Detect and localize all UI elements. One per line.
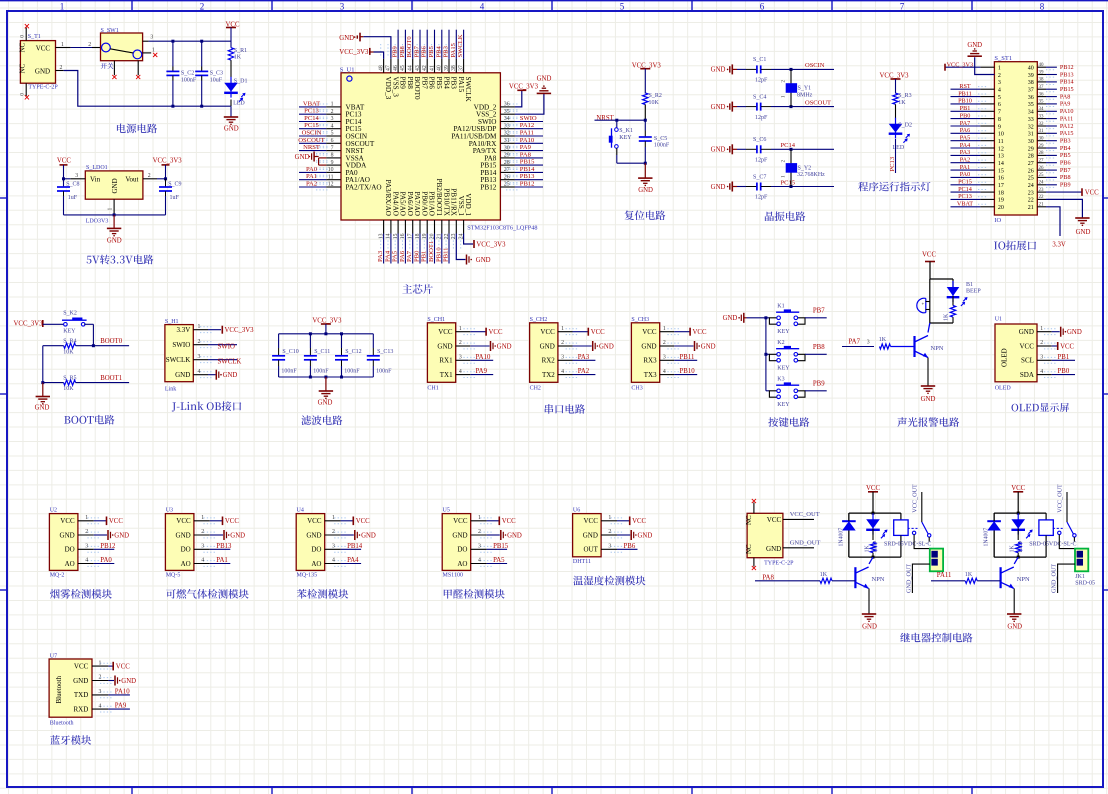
svg-text:PA7: PA7: [960, 120, 970, 127]
svg-text:PA2: PA2: [960, 157, 970, 164]
svg-text:24: 24: [1039, 181, 1045, 186]
svg-text:PA2/TX/AO: PA2/TX/AO: [346, 184, 382, 192]
svg-text:4: 4: [998, 88, 1001, 94]
svg-text:+: +: [922, 303, 925, 308]
svg-text:S_D1: S_D1: [234, 78, 248, 84]
svg-text:VCC: VCC: [109, 518, 123, 525]
svg-text:GND: GND: [35, 68, 50, 76]
svg-text:PB4: PB4: [1060, 145, 1071, 152]
svg-text:3: 3: [998, 80, 1001, 86]
svg-text:28: 28: [1039, 151, 1045, 156]
svg-text:4: 4: [99, 703, 102, 709]
svg-text:KEY: KEY: [63, 329, 76, 335]
svg-text:JK1: JK1: [1075, 574, 1085, 580]
svg-text:26: 26: [504, 174, 510, 180]
svg-text:11: 11: [998, 139, 1004, 145]
svg-text:PB5: PB5: [428, 45, 435, 57]
svg-text:VCC_3V3: VCC_3V3: [339, 49, 369, 56]
svg-text:PB0: PB0: [414, 250, 421, 262]
svg-text:PB1: PB1: [960, 105, 971, 112]
svg-text:38: 38: [451, 65, 457, 71]
svg-text:VCC: VCC: [453, 517, 468, 525]
svg-text:12pF: 12pF: [755, 78, 768, 84]
svg-text:4: 4: [561, 369, 564, 375]
svg-text:PC13: PC13: [304, 108, 319, 115]
svg-text:30: 30: [1039, 137, 1045, 142]
svg-text:TYPE-C-2P: TYPE-C-2P: [28, 85, 58, 91]
svg-text:29: 29: [1028, 146, 1034, 152]
svg-text:GND: GND: [35, 405, 50, 412]
svg-text:PB15: PB15: [493, 543, 509, 550]
svg-text:PA12: PA12: [1060, 123, 1074, 130]
svg-text:1: 1: [998, 66, 1001, 72]
svg-text:OSCIN: OSCIN: [302, 130, 322, 137]
svg-text:PA0: PA0: [306, 166, 318, 173]
svg-text:10K: 10K: [63, 350, 74, 356]
svg-text:GND: GND: [306, 531, 321, 539]
svg-text:PB9: PB9: [392, 45, 399, 57]
svg-text:38: 38: [1028, 80, 1034, 86]
svg-text:PB9: PB9: [1060, 182, 1071, 189]
svg-text:VBAT: VBAT: [957, 201, 973, 208]
svg-text:GND_OUT: GND_OUT: [1051, 564, 1058, 593]
svg-text:PB7: PB7: [421, 77, 429, 90]
svg-text:GND: GND: [452, 531, 467, 539]
svg-text:8: 8: [1040, 2, 1045, 12]
svg-text:22: 22: [1028, 198, 1034, 204]
svg-text:S_C2: S_C2: [181, 71, 194, 77]
svg-text:OUT: OUT: [584, 546, 599, 554]
svg-text:13: 13: [998, 154, 1004, 160]
svg-text:PA8: PA8: [1060, 93, 1070, 100]
svg-text:46: 46: [393, 65, 399, 71]
svg-text:S_C8: S_C8: [66, 181, 79, 187]
svg-text:2: 2: [998, 73, 1001, 79]
svg-text:PA3: PA3: [960, 149, 970, 156]
svg-text:1: 1: [332, 515, 335, 521]
svg-text:100nF: 100nF: [181, 77, 197, 83]
svg-text:1: 1: [99, 660, 102, 666]
svg-text:S_Y1: S_Y1: [798, 86, 812, 92]
svg-text:PB14: PB14: [1060, 79, 1074, 86]
svg-text:PC14: PC14: [958, 186, 972, 193]
svg-text:LED: LED: [233, 100, 245, 106]
svg-text:GND: GND: [711, 67, 726, 74]
svg-text:PC13: PC13: [889, 156, 896, 171]
svg-text:PB5: PB5: [1060, 152, 1071, 159]
svg-text:SWIO: SWIO: [218, 344, 235, 351]
svg-text:4: 4: [85, 558, 88, 564]
svg-text:1K: 1K: [898, 100, 906, 106]
svg-text:KEY: KEY: [777, 329, 790, 335]
svg-text:VSS_1: VSS_1: [457, 196, 465, 217]
svg-text:GND: GND: [711, 104, 726, 111]
svg-text:VCC: VCC: [116, 664, 130, 671]
svg-text:AO: AO: [65, 560, 75, 568]
svg-text:NPN: NPN: [931, 345, 944, 352]
svg-text:PB12: PB12: [1060, 64, 1074, 71]
svg-text:TX1: TX1: [440, 371, 453, 379]
svg-text:GND: GND: [967, 42, 982, 49]
svg-text:35: 35: [1028, 102, 1034, 108]
svg-text:B1: B1: [966, 282, 973, 288]
svg-text:3: 3: [340, 2, 345, 12]
svg-text:3: 3: [150, 35, 153, 41]
svg-text:1: 1: [331, 102, 334, 108]
svg-text:1: 1: [1040, 326, 1043, 332]
svg-text:CH3: CH3: [631, 385, 642, 391]
svg-text:PA2: PA2: [306, 181, 317, 188]
svg-text:U4: U4: [297, 508, 304, 514]
svg-text:38: 38: [1039, 78, 1045, 83]
svg-text:SDA: SDA: [1020, 371, 1034, 379]
svg-text:MQ-5: MQ-5: [166, 573, 181, 579]
svg-text:10: 10: [328, 167, 334, 173]
svg-text:12pF: 12pF: [755, 158, 768, 164]
svg-text:U7: U7: [50, 653, 57, 659]
svg-text:0: 0: [20, 93, 26, 96]
svg-text:1K: 1K: [864, 545, 870, 553]
svg-text:1: 1: [459, 326, 462, 332]
svg-text:RX3: RX3: [643, 357, 657, 365]
svg-text:3: 3: [85, 544, 88, 550]
svg-text:S_C6: S_C6: [753, 137, 766, 143]
svg-text:2: 2: [148, 173, 151, 179]
svg-text:OLED: OLED: [1001, 348, 1009, 367]
svg-text:BOOT0: BOOT0: [406, 36, 413, 58]
svg-text:RXD: RXD: [74, 705, 89, 713]
svg-text:27: 27: [1039, 159, 1045, 164]
svg-text:GND: GND: [73, 677, 88, 685]
svg-text:OSCOUT: OSCOUT: [805, 99, 831, 106]
svg-text:GND: GND: [318, 400, 333, 407]
svg-text:100nF: 100nF: [376, 368, 392, 374]
svg-text:PA15: PA15: [457, 77, 465, 93]
svg-text:DO: DO: [181, 546, 191, 554]
svg-text:U1: U1: [995, 317, 1002, 323]
svg-text:U3: U3: [166, 508, 173, 514]
svg-text:27: 27: [504, 167, 510, 173]
svg-text:3: 3: [1040, 355, 1043, 361]
svg-text:PB7: PB7: [1060, 167, 1071, 174]
svg-text:GND: GND: [723, 315, 738, 322]
svg-text:3: 3: [608, 544, 611, 550]
svg-text:3: 3: [663, 355, 666, 361]
svg-text:34: 34: [504, 116, 510, 122]
svg-text:48: 48: [378, 65, 384, 71]
svg-text:Vin: Vin: [90, 175, 101, 183]
svg-text:PA15: PA15: [450, 42, 457, 57]
svg-text:S_LDO1: S_LDO1: [86, 165, 108, 171]
svg-text:PA9: PA9: [520, 144, 532, 151]
svg-text:44: 44: [408, 65, 414, 71]
svg-text:VCC: VCC: [591, 329, 605, 336]
svg-text:S_C1: S_C1: [753, 57, 766, 63]
svg-text:GND: GND: [121, 678, 136, 685]
svg-text:BOOT1: BOOT1: [100, 375, 122, 382]
svg-text:S_C13: S_C13: [377, 349, 393, 355]
svg-text:3: 3: [331, 116, 334, 122]
svg-text:PB13: PB13: [1060, 71, 1074, 78]
svg-text:2: 2: [459, 340, 462, 346]
svg-text:8: 8: [998, 117, 1001, 123]
svg-text:1: 1: [561, 326, 564, 332]
svg-text:SWCLK: SWCLK: [218, 359, 242, 366]
svg-text:VCC: VCC: [502, 518, 516, 525]
svg-text:100nF: 100nF: [344, 368, 360, 374]
svg-text:9: 9: [998, 124, 1001, 130]
svg-text:PB13: PB13: [520, 173, 535, 180]
svg-text:PB3: PB3: [443, 45, 450, 57]
svg-text:1: 1: [61, 42, 64, 48]
svg-text:6: 6: [760, 2, 765, 12]
svg-text:K3: K3: [777, 377, 784, 383]
svg-text:36: 36: [1028, 95, 1034, 101]
svg-text:S_C11: S_C11: [314, 349, 330, 355]
svg-text:PA6: PA6: [399, 250, 406, 262]
svg-text:SWIO: SWIO: [520, 115, 537, 122]
svg-text:PA5/AO: PA5/AO: [399, 192, 407, 217]
svg-text:23: 23: [1028, 190, 1034, 196]
svg-text:AO: AO: [311, 560, 321, 568]
svg-text:PA6/AO: PA6/AO: [406, 192, 414, 217]
svg-text:VCC_OUT: VCC_OUT: [912, 484, 919, 513]
svg-text:PB12: PB12: [520, 181, 535, 188]
svg-text:4: 4: [1040, 369, 1043, 375]
svg-text:GND: GND: [107, 237, 122, 244]
svg-text:PA3: PA3: [578, 354, 590, 361]
svg-text:VCC: VCC: [74, 662, 89, 670]
svg-text:DHT11: DHT11: [573, 559, 591, 565]
svg-text:32: 32: [1039, 122, 1045, 127]
svg-text:37: 37: [1039, 85, 1045, 90]
svg-text:TYPE-C-2P: TYPE-C-2P: [764, 560, 794, 566]
svg-text:PA1: PA1: [306, 173, 317, 180]
svg-text:Vout: Vout: [125, 175, 138, 183]
svg-text:PB0: PB0: [960, 112, 971, 119]
svg-text:11: 11: [328, 174, 334, 180]
svg-text:2: 2: [198, 339, 201, 345]
svg-text:VCC: VCC: [489, 329, 503, 336]
svg-text:K2: K2: [777, 340, 784, 346]
svg-text:39: 39: [1028, 73, 1034, 79]
svg-text:VSS_3: VSS_3: [391, 77, 399, 98]
svg-text:PA5: PA5: [493, 557, 505, 564]
svg-text:PB4: PB4: [435, 45, 442, 57]
svg-text:PA6: PA6: [960, 127, 970, 134]
svg-text:SRD-05VDC-SL-C: SRD-05VDC-SL-C: [884, 542, 931, 548]
svg-text:PB12: PB12: [100, 543, 116, 550]
svg-text:LDO3V3: LDO3V3: [86, 218, 109, 224]
svg-text:PA3/RX/AO: PA3/RX/AO: [384, 180, 392, 216]
svg-text:10uF: 10uF: [210, 77, 223, 83]
svg-text:25: 25: [504, 182, 510, 188]
svg-text:MQ-2: MQ-2: [50, 573, 65, 579]
svg-text:PA11: PA11: [937, 572, 952, 579]
svg-text:VCC: VCC: [225, 518, 239, 525]
svg-text:VCC: VCC: [767, 516, 782, 524]
svg-text:GND: GND: [507, 532, 522, 539]
svg-text:10K: 10K: [649, 100, 660, 106]
svg-text:Bluetooth: Bluetooth: [50, 720, 74, 726]
svg-text:GND: GND: [230, 532, 245, 539]
svg-text:S_C5: S_C5: [654, 136, 667, 142]
svg-text:GND: GND: [599, 343, 614, 350]
svg-text:S_R1: S_R1: [234, 48, 247, 54]
svg-text:S_C10: S_C10: [282, 349, 298, 355]
svg-text:VCC: VCC: [1060, 343, 1074, 350]
svg-text:PC13: PC13: [958, 193, 972, 200]
svg-text:GND: GND: [114, 532, 129, 539]
svg-text:S_K1: S_K1: [619, 128, 633, 134]
svg-text:VBAT: VBAT: [303, 100, 320, 107]
svg-text:33: 33: [1028, 117, 1034, 123]
svg-text:NC: NC: [745, 515, 753, 525]
svg-text:3: 3: [75, 173, 78, 179]
svg-text:VCC: VCC: [632, 518, 646, 525]
svg-text:6: 6: [331, 138, 334, 144]
svg-text:PB15: PB15: [1060, 86, 1074, 93]
svg-text:VCC: VCC: [693, 329, 707, 336]
svg-text:PB8: PB8: [399, 45, 406, 57]
svg-text:3: 3: [478, 544, 481, 550]
svg-text:GND: GND: [862, 623, 877, 630]
svg-text:S_K2: S_K2: [63, 310, 77, 316]
svg-text:PB6: PB6: [428, 77, 436, 90]
svg-text:37: 37: [458, 65, 464, 71]
svg-text:PB2/BOOT1: PB2/BOOT1: [435, 178, 443, 216]
svg-text:GND: GND: [766, 545, 781, 553]
svg-text:PA9: PA9: [476, 368, 488, 375]
svg-text:2: 2: [99, 675, 102, 681]
svg-text:40: 40: [1028, 66, 1034, 72]
svg-text:35: 35: [1039, 100, 1045, 105]
svg-text:SWIO: SWIO: [172, 341, 190, 349]
svg-text:PB6: PB6: [421, 45, 428, 57]
svg-text:VCC_3V3: VCC_3V3: [476, 242, 506, 249]
svg-text:1: 1: [201, 515, 204, 521]
svg-text:MQ-135: MQ-135: [297, 573, 318, 579]
svg-text:GND: GND: [497, 343, 512, 350]
svg-text:GND: GND: [701, 343, 716, 350]
svg-text:PB0: PB0: [1058, 368, 1070, 375]
svg-text:SWCLK: SWCLK: [457, 34, 464, 57]
svg-text:GND: GND: [339, 35, 354, 42]
svg-text:34: 34: [1028, 110, 1034, 116]
svg-text:PA4: PA4: [960, 142, 970, 149]
svg-text:PB9: PB9: [399, 77, 407, 90]
svg-text:VCC: VCC: [438, 328, 453, 336]
svg-text:34: 34: [1039, 107, 1045, 112]
svg-text:PA10: PA10: [1060, 108, 1074, 115]
svg-text:32.768KHz: 32.768KHz: [797, 172, 825, 178]
svg-text:GND: GND: [361, 532, 376, 539]
svg-text:GND: GND: [1076, 229, 1091, 236]
svg-text:1: 1: [60, 2, 65, 12]
svg-text:S_H1: S_H1: [165, 319, 179, 325]
svg-text:47: 47: [386, 65, 392, 71]
svg-text:S_SW1: S_SW1: [101, 28, 119, 34]
svg-text:PA11: PA11: [1060, 115, 1073, 122]
svg-text:S_Y2: S_Y2: [798, 165, 812, 171]
svg-text:14: 14: [998, 161, 1004, 167]
svg-text:25: 25: [1039, 173, 1045, 178]
svg-text:3.3V: 3.3V: [176, 326, 190, 334]
svg-text:GND: GND: [638, 532, 653, 539]
svg-text:33: 33: [1039, 114, 1045, 119]
svg-text:PC15: PC15: [958, 179, 972, 186]
svg-text:S_T1: S_T1: [28, 34, 41, 40]
svg-text:PA11: PA11: [520, 130, 534, 137]
svg-text:GND: GND: [476, 257, 491, 264]
svg-text:3: 3: [201, 544, 204, 550]
svg-text:PB7: PB7: [813, 307, 825, 314]
svg-text:PB10: PB10: [958, 98, 972, 105]
svg-text:21: 21: [1039, 203, 1045, 208]
svg-text:4: 4: [459, 369, 462, 375]
svg-text:16: 16: [998, 176, 1004, 182]
svg-text:PA12: PA12: [520, 122, 534, 129]
svg-text:PA10: PA10: [115, 688, 130, 695]
svg-text:VCC: VCC: [57, 157, 71, 164]
svg-text:4: 4: [663, 369, 666, 375]
svg-text:SRD-05VDC-SL-C: SRD-05VDC-SL-C: [1029, 542, 1076, 548]
svg-text:12pF: 12pF: [755, 115, 768, 121]
svg-text:GND: GND: [295, 154, 310, 161]
svg-text:S_C9: S_C9: [168, 181, 181, 187]
svg-text:35: 35: [504, 109, 510, 115]
svg-text:S_C3: S_C3: [210, 71, 223, 77]
svg-text:U5: U5: [443, 508, 450, 514]
svg-text:TXD: TXD: [74, 691, 88, 699]
svg-text:GND: GND: [437, 342, 452, 350]
svg-text:42: 42: [422, 65, 428, 71]
svg-text:PB10/TX: PB10/TX: [442, 188, 450, 216]
svg-text:1K: 1K: [1010, 545, 1016, 553]
svg-text:GND_OUT: GND_OUT: [905, 564, 912, 593]
svg-text:3: 3: [332, 544, 335, 550]
svg-text:DO: DO: [65, 546, 75, 554]
svg-text:S_R5: S_R5: [63, 375, 76, 381]
svg-text:PA7: PA7: [406, 250, 413, 262]
svg-text:RX2: RX2: [542, 357, 556, 365]
svg-text:S_CH3: S_CH3: [631, 317, 649, 323]
svg-text:5: 5: [620, 2, 625, 12]
svg-text:PC15: PC15: [304, 122, 319, 129]
svg-text:GND: GND: [60, 531, 75, 539]
svg-text:S_R4: S_R4: [63, 339, 76, 345]
svg-text:1: 1: [85, 515, 88, 521]
svg-text:S_C12: S_C12: [345, 349, 361, 355]
svg-text:DO: DO: [457, 546, 467, 554]
svg-text:PA4/AO: PA4/AO: [391, 192, 399, 217]
svg-text:CH1: CH1: [427, 385, 438, 391]
svg-text:PA1: PA1: [960, 164, 970, 171]
svg-text:VCC: VCC: [176, 517, 191, 525]
svg-text:2: 2: [201, 529, 204, 535]
svg-text:2: 2: [663, 340, 666, 346]
svg-text:MS1100: MS1100: [443, 573, 463, 579]
svg-text:29: 29: [504, 153, 510, 159]
svg-text:GND: GND: [537, 75, 552, 82]
svg-text:18: 18: [998, 190, 1004, 196]
svg-text:PA15: PA15: [1060, 130, 1074, 137]
svg-text:TX2: TX2: [542, 371, 555, 379]
svg-text:2: 2: [1040, 340, 1043, 346]
svg-text:40: 40: [1039, 63, 1045, 68]
svg-text:30: 30: [1028, 139, 1034, 145]
svg-text:PB11: PB11: [958, 90, 972, 97]
